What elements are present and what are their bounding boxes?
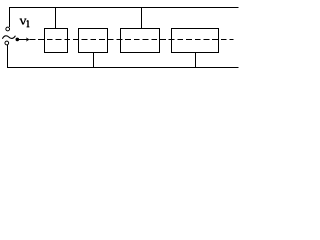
wire dropper box Z4 to bottom bus: [195, 53, 197, 68]
terminal circle bottom input: [5, 41, 9, 45]
wire left vertical to top terminal: [9, 7, 11, 27]
wire left vertical from bottom terminal: [7, 45, 9, 67]
node junction dot on axis: [15, 38, 19, 42]
terminal circle top input: [6, 27, 10, 31]
box Z2 (series element 2): [79, 29, 108, 53]
wire top bus: [9, 7, 239, 9]
arrowhead on axis: [26, 37, 30, 41]
box Z1 (series element 1): [45, 29, 68, 53]
wire arrow shaft on axis: [19, 39, 27, 41]
box Z3 (series element 3): [121, 29, 160, 53]
wire dropper box Z2 to bottom bus: [93, 53, 95, 68]
label v1: [20, 19, 30, 27]
wire axis dashed line: [30, 39, 234, 41]
box Z4 (series element 4): [172, 29, 219, 53]
wire bottom bus: [7, 67, 239, 69]
AC source tilde: [3, 36, 16, 39]
wire riser box Z3 to top bus: [141, 7, 143, 29]
wire riser box Z1 to top bus: [55, 7, 57, 29]
